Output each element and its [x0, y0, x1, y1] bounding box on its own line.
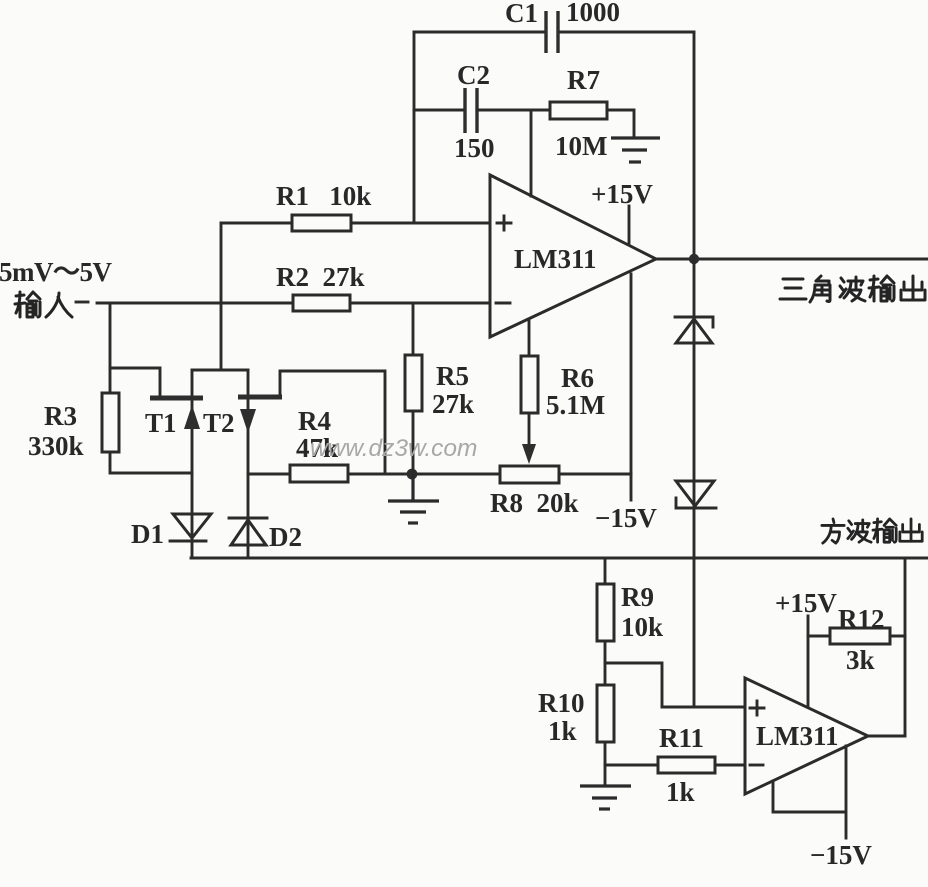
svg-text:T2: T2	[203, 408, 235, 438]
svg-text:−15V: −15V	[810, 840, 872, 870]
svg-text:330k: 330k	[28, 431, 84, 461]
resistor R12	[830, 628, 890, 644]
zener VD2	[676, 481, 716, 508]
svg-text:1k: 1k	[666, 777, 695, 807]
ground middle	[388, 474, 439, 523]
svg-text:10M: 10M	[555, 131, 607, 161]
diode D2	[229, 518, 267, 545]
wire top C1 row right	[558, 31, 694, 34]
op-amp U2 LM311	[745, 678, 868, 794]
svg-text:3k: 3k	[846, 645, 875, 675]
wire R12 right	[890, 635, 905, 638]
svg-text:1000: 1000	[566, 0, 620, 27]
resistor R7	[550, 102, 607, 119]
svg-text:R8 20k: R8 20k	[490, 488, 579, 518]
resistor R4	[290, 465, 348, 482]
svg-text:T1: T1	[145, 408, 177, 438]
wire R5 bottom	[412, 411, 415, 474]
wire R9 bottom to R10 top	[604, 641, 607, 685]
arrow R6 wiper onto R8	[522, 444, 536, 464]
wire square line down to U2 output	[904, 558, 907, 736]
svg-text:D1: D1	[131, 519, 164, 549]
wire T1 T2 top bar	[192, 369, 248, 372]
wire R1 right to + input	[351, 222, 490, 225]
wire R5 top	[412, 303, 415, 355]
capacitor C2	[465, 88, 477, 133]
wire R1 left down to T1 T2 drains	[220, 223, 223, 370]
svg-text:R11: R11	[659, 723, 704, 753]
resistor R5	[405, 355, 422, 411]
pin + of U1	[497, 216, 511, 230]
svg-text:C1: C1	[505, 0, 538, 28]
wire R10 bottom to ground	[604, 742, 607, 786]
wire R6 top pin from U1	[528, 319, 531, 356]
resistor R3	[102, 393, 119, 452]
op-amp U1 LM311	[490, 175, 656, 337]
label 输入	[15, 292, 72, 317]
svg-text:R1 10k: R1 10k	[276, 181, 371, 211]
svg-text:C2: C2	[457, 60, 490, 90]
wire R8 right to -15V rail	[559, 473, 631, 476]
wire R4 right to ground node to R8	[348, 473, 500, 476]
svg-text:1k: 1k	[548, 716, 577, 746]
wire +15V pin of U2	[807, 616, 810, 706]
wire square wave line	[191, 557, 928, 560]
wire U2 bottom pins to -15V	[773, 746, 846, 838]
svg-text:R7: R7	[567, 65, 600, 95]
wire left rail	[413, 32, 416, 223]
node ground junction	[407, 469, 418, 480]
label 方波输出	[822, 519, 922, 543]
wire C2 left	[414, 109, 465, 112]
resistor R10	[597, 685, 614, 742]
wire T2 source to R4	[248, 473, 290, 476]
label 三角波输出	[780, 276, 925, 302]
svg-text:R5: R5	[436, 361, 469, 391]
wire input line to R2	[97, 302, 293, 305]
ground bottom	[580, 786, 631, 809]
wire R10 bottom node to R11	[605, 764, 658, 767]
wire input down to R3	[109, 303, 112, 393]
wire C2 right to R7	[477, 109, 550, 112]
resistor R2	[293, 295, 350, 311]
wire R1 left corner	[221, 222, 292, 225]
wire output of U1 triangle wave line	[656, 258, 928, 261]
svg-text:5mV～5V: 5mV～5V	[0, 257, 112, 287]
wire R11 right to U2 - input	[715, 764, 745, 767]
svg-text:R9: R9	[621, 582, 654, 612]
wire R9 top	[604, 558, 607, 584]
pin - of U2	[750, 764, 763, 767]
svg-text:150: 150	[454, 133, 495, 163]
transistor T2	[238, 370, 282, 558]
wire R3 bottom to T1 source	[110, 452, 192, 473]
svg-text:27k: 27k	[432, 389, 474, 419]
wire rail zener VD2 down to U2 + input	[693, 481, 696, 707]
wire rail between output node and zener VD1	[693, 259, 696, 481]
wire node C2-R7 junction down to op-amp top edge	[530, 110, 533, 196]
wire U2 + input	[662, 706, 745, 709]
svg-text:+15V: +15V	[775, 588, 837, 618]
svg-text:R4: R4	[298, 406, 331, 436]
svg-text:10k: 10k	[621, 612, 663, 642]
svg-text:−15V: −15V	[595, 503, 657, 533]
svg-text:R10: R10	[538, 688, 585, 718]
wire R7 to ground	[607, 110, 634, 137]
svg-text:5.1M: 5.1M	[546, 390, 605, 420]
svg-text:R12: R12	[838, 604, 885, 634]
transistor T1	[150, 370, 203, 558]
wire right rail top	[693, 32, 696, 259]
svg-text:R2 27k: R2 27k	[276, 262, 365, 292]
wire +15V pin of U1	[628, 206, 631, 243]
wire T1 gate lead	[110, 368, 160, 396]
diode D1	[170, 514, 211, 541]
wire U2 output	[868, 735, 905, 738]
wire top C1 row left	[414, 31, 546, 34]
ground R7	[611, 138, 660, 162]
pin + of U2	[750, 701, 764, 715]
wire R12 left	[808, 635, 830, 638]
pin - of U1	[496, 302, 510, 305]
node output junction	[689, 254, 699, 264]
svg-text:R3: R3	[44, 401, 77, 431]
svg-text:www.dz3w.com: www.dz3w.com	[310, 435, 477, 462]
wire R6 to wiper arrow	[528, 413, 531, 445]
svg-text:+15V: +15V	[591, 179, 653, 209]
capacitor C1	[546, 11, 558, 53]
potentiometer R8	[500, 466, 559, 483]
wire T2 gate lead to R4 right node	[280, 371, 385, 474]
wire R2 right to - input	[350, 302, 490, 305]
svg-text:LM311: LM311	[514, 244, 597, 274]
wire jog from divider node to U2 + input	[605, 663, 662, 707]
resistor R9	[597, 584, 614, 641]
wire -15V pin of U1	[630, 274, 633, 500]
svg-text:R6: R6	[561, 363, 594, 393]
resistor R11	[658, 757, 715, 773]
svg-text:LM311: LM311	[756, 721, 839, 751]
resistor R6	[521, 356, 538, 413]
wire input dash	[76, 301, 88, 304]
svg-text:D2: D2	[269, 522, 302, 552]
zener VD1	[675, 317, 713, 343]
resistor R1	[292, 215, 351, 231]
